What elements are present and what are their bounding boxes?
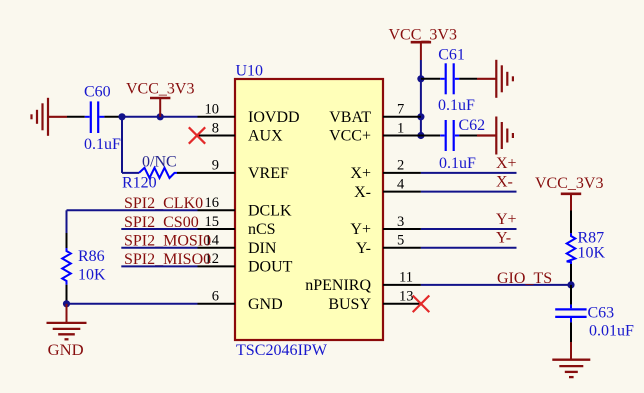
svg-text:2: 2	[397, 158, 404, 174]
svg-text:nPENIRQ: nPENIRQ	[305, 277, 371, 294]
svg-text:GND: GND	[248, 296, 283, 313]
svg-text:16: 16	[205, 195, 220, 211]
capacitor C62	[421, 117, 485, 172]
wire X-	[421, 191, 517, 193]
svg-text:10K: 10K	[578, 245, 606, 262]
wire node A to pin 10	[122, 116, 198, 118]
svg-text:GND: GND	[48, 342, 84, 359]
power port VCC_3V3 left	[126, 81, 194, 117]
net label SPI2_MOSI0 + wire	[121, 233, 211, 250]
svg-text:8: 8	[212, 120, 219, 136]
svg-text:10K: 10K	[78, 267, 106, 284]
pin 9 VREF	[198, 158, 290, 182]
svg-text:1: 1	[397, 120, 404, 136]
pin 6 GND	[198, 289, 283, 313]
capacitor C63	[555, 285, 634, 342]
wire nPENIRQ to junction (GIO_TS)	[421, 284, 571, 286]
pin 12 DOUT	[198, 251, 293, 275]
pin 7 VBAT	[329, 102, 421, 126]
junction C61	[417, 75, 424, 82]
svg-text:3: 3	[397, 214, 404, 230]
junction R86/GND/pin6	[63, 300, 70, 307]
svg-text:11: 11	[399, 270, 413, 286]
svg-text:VCC_3V3: VCC_3V3	[535, 175, 603, 192]
ground (earth) symbol for C61	[477, 60, 513, 98]
svg-text:R120: R120	[122, 175, 157, 192]
pin 10 IOVDD	[198, 102, 300, 126]
wire VCC vertical	[420, 60, 422, 136]
svg-text:BUSY: BUSY	[328, 296, 371, 313]
svg-text:15: 15	[205, 214, 220, 230]
svg-text:X-: X-	[354, 184, 371, 201]
resistor R87	[567, 211, 606, 285]
junction at VCC stub	[157, 113, 164, 120]
svg-text:0.01uF: 0.01uF	[589, 323, 634, 340]
svg-text:13: 13	[399, 289, 414, 305]
svg-text:Y+: Y+	[350, 221, 371, 238]
svg-text:C60: C60	[84, 84, 111, 101]
power port GND (bottom left)	[47, 304, 87, 359]
svg-text:4: 4	[397, 176, 405, 192]
svg-text:DIN: DIN	[248, 240, 277, 257]
no-connect X on pin 8	[189, 127, 205, 143]
svg-text:0/NC: 0/NC	[142, 154, 177, 171]
svg-text:0.1uF: 0.1uF	[84, 136, 121, 153]
no-connect X on pin 13	[413, 296, 430, 313]
pin 13 BUSY	[328, 289, 421, 313]
svg-text:R86: R86	[78, 248, 105, 265]
power port VCC_3V3 right	[535, 175, 603, 211]
svg-text:0.1uF: 0.1uF	[438, 97, 475, 114]
svg-text:VCC_3V3: VCC_3V3	[389, 26, 457, 43]
svg-text:nCS: nCS	[248, 221, 276, 238]
resistor R120	[122, 154, 198, 192]
svg-text:X+: X+	[350, 165, 371, 182]
junction VBAT	[417, 113, 424, 120]
pin 1 VCC+	[329, 120, 421, 144]
pin 4 X-	[354, 176, 421, 200]
wire Y-	[421, 247, 517, 249]
op-amp/IC U10 body (TSC2046IPW)	[235, 63, 383, 360]
net label SPI2_CLK0 + wire	[67, 195, 204, 212]
svg-text:AUX: AUX	[248, 128, 283, 145]
net label SPI2_CS00 + wire	[121, 214, 198, 231]
svg-text:DOUT: DOUT	[248, 259, 293, 276]
svg-text:7: 7	[397, 102, 404, 118]
resistor R86	[62, 233, 106, 304]
svg-text:10: 10	[205, 102, 220, 118]
svg-text:VREF: VREF	[248, 165, 289, 182]
svg-text:9: 9	[212, 158, 219, 174]
svg-text:0.1uF: 0.1uF	[439, 155, 476, 172]
wire SPI2_CLK0 corner down to R86	[66, 210, 68, 233]
svg-text:VCC_3V3: VCC_3V3	[126, 81, 194, 98]
power port GND (bottom right, earth bars)	[552, 342, 590, 377]
ground (earth) symbol for C62	[477, 117, 513, 155]
wire corner to R120	[122, 172, 139, 174]
pin 5 Y-	[356, 233, 421, 257]
svg-text:X-: X-	[496, 174, 513, 191]
svg-text:DCLK: DCLK	[248, 203, 292, 220]
net label SPI2_MISO0 + wire	[121, 251, 211, 268]
svg-text:C63: C63	[588, 305, 615, 322]
svg-text:U10: U10	[236, 63, 264, 80]
wire X+	[421, 172, 517, 174]
svg-text:VCC+: VCC+	[329, 128, 371, 145]
capacitor C60	[67, 84, 122, 154]
capacitor C61	[421, 47, 477, 115]
svg-text:Y-: Y-	[496, 230, 511, 247]
svg-text:C61: C61	[438, 47, 465, 64]
junction VCC+	[417, 132, 424, 139]
svg-text:IOVDD: IOVDD	[248, 109, 300, 126]
junction at C60/vertical	[118, 113, 125, 120]
svg-text:X+: X+	[496, 155, 517, 172]
svg-text:Y-: Y-	[356, 240, 371, 257]
wire junction to pin 6	[67, 303, 198, 305]
pin 15 nCS	[198, 214, 276, 238]
pin 14 DIN	[198, 233, 277, 257]
power port VCC_3V3 top center	[389, 26, 457, 60]
junction GIO_TS/R87/C63	[567, 281, 574, 288]
svg-text:5: 5	[397, 233, 404, 249]
svg-text:GIO_TS: GIO_TS	[497, 270, 552, 287]
wire Y+	[421, 228, 517, 230]
pin 2 X+	[350, 158, 420, 182]
svg-text:TSC2046IPW: TSC2046IPW	[236, 342, 328, 359]
pin 11 nPENIRQ	[305, 270, 421, 294]
pin 8 AUX	[198, 120, 284, 144]
pin 16 DCLK	[198, 195, 293, 219]
svg-text:6: 6	[212, 289, 219, 305]
pin 3 Y+	[350, 214, 420, 238]
ground (earth) symbol left	[32, 98, 68, 136]
wire vertical to R120	[121, 117, 123, 173]
svg-text:Y+: Y+	[496, 211, 517, 228]
svg-text:VBAT: VBAT	[329, 109, 371, 126]
svg-text:C62: C62	[459, 117, 486, 134]
